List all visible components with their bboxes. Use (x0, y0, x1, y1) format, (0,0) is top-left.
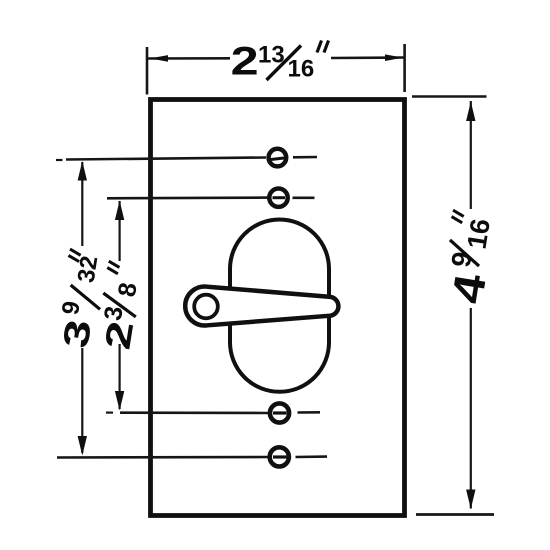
hole centerline 3 (106, 412, 113, 414)
dimension text: 3 9/32 inch (left, rotated) (52, 249, 110, 351)
obround escutcheon (230, 220, 329, 392)
dimension text: 2 13/16 inch (top) (231, 40, 329, 84)
left dimension line B (2 3/8) (118, 201, 120, 261)
dimension text: 2 3/8 inch (left inner, rotated) (95, 261, 151, 352)
left dimension line A (3 9/32) (81, 162, 83, 246)
svg-text:8: 8 (113, 281, 143, 299)
top dimension line (147, 57, 230, 60)
top dimension extension lines (146, 47, 149, 95)
plate outline (151, 100, 405, 516)
lever handle (185, 287, 338, 326)
svg-text:16: 16 (288, 56, 315, 83)
screw hole 2 (269, 189, 287, 207)
svg-text:2: 2 (231, 40, 259, 84)
svg-text:2: 2 (96, 318, 141, 352)
svg-text:9: 9 (57, 299, 86, 316)
hole centerline 2 (107, 196, 269, 199)
hole centerline 1 (56, 159, 63, 161)
hole centerline 4 (57, 456, 268, 459)
svg-text:3: 3 (54, 317, 99, 351)
lever boss inner circle (194, 295, 218, 319)
screw hole 4 (270, 447, 289, 466)
dimension text: 4 9/16 inch (right, rotated) (439, 210, 506, 307)
svg-text:16: 16 (462, 217, 496, 251)
screw hole 3 (270, 403, 289, 422)
right dimension line (4 9/16) (470, 101, 472, 209)
svg-text:32: 32 (73, 254, 104, 285)
svg-text:4: 4 (443, 270, 496, 307)
right dimension extension lines (412, 95, 487, 98)
screw hole 1 (269, 149, 287, 167)
